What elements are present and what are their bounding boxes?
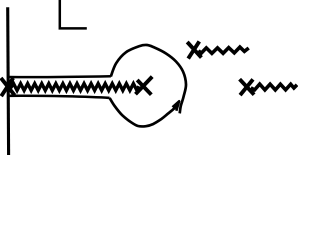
- loop lower arc (crack-tip circle): [110, 98, 177, 127]
- corner bracket: [60, 0, 87, 28]
- lower right zigzag squiggle: [251, 84, 297, 90]
- X mark upper right: [187, 41, 201, 58]
- crack lower face (wire): [9, 96, 110, 98]
- X mark at crack mouth: [1, 78, 15, 96]
- crack upper face (wire): [9, 75, 111, 78]
- left boundary line (wire): [6, 7, 10, 155]
- X mark at loop centre: [136, 77, 153, 95]
- loop upper arc (crack-tip circle): [111, 45, 186, 113]
- arrowhead on loop: [173, 101, 180, 110]
- zigzag spring inside crack: [11, 84, 139, 91]
- X mark lower right: [240, 79, 255, 95]
- upper right zigzag squiggle: [199, 47, 249, 53]
